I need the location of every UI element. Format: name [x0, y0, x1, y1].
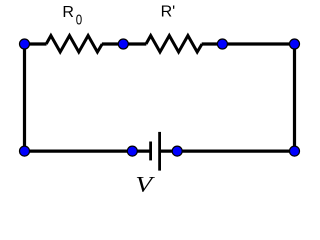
resistor R': [146, 36, 202, 52]
resistor R0: [46, 36, 102, 52]
wire: left side vertical: [23, 44, 26, 151]
svg-text:0: 0: [76, 11, 82, 28]
battery V: long positive plate: [158, 132, 161, 171]
battery V: short negative plate: [149, 142, 152, 161]
node: battery positive side: [172, 146, 182, 156]
node: top-right corner: [290, 39, 300, 49]
node: bottom-left corner: [20, 146, 30, 156]
node: battery negative side: [127, 146, 137, 156]
wire: R0 right lead through middle node to R' left lead: [102, 42, 146, 45]
svg-text:R': R': [161, 4, 176, 21]
svg-text:V: V: [135, 173, 155, 197]
svg-text:R: R: [62, 4, 74, 21]
wire: bottom-right corner to battery positive plate: [160, 150, 295, 153]
wire: R' right lead through node to top-right corner: [202, 42, 295, 45]
wire: battery negative plate to bottom-left corner: [25, 150, 151, 153]
wire: top-left node to R0 left lead: [25, 42, 47, 45]
node: top-left corner: [20, 39, 30, 49]
node: bottom-right corner: [290, 146, 300, 156]
node: between R0 and R': [118, 39, 128, 49]
wire: right side vertical: [293, 44, 296, 151]
node: right of R': [217, 39, 227, 49]
